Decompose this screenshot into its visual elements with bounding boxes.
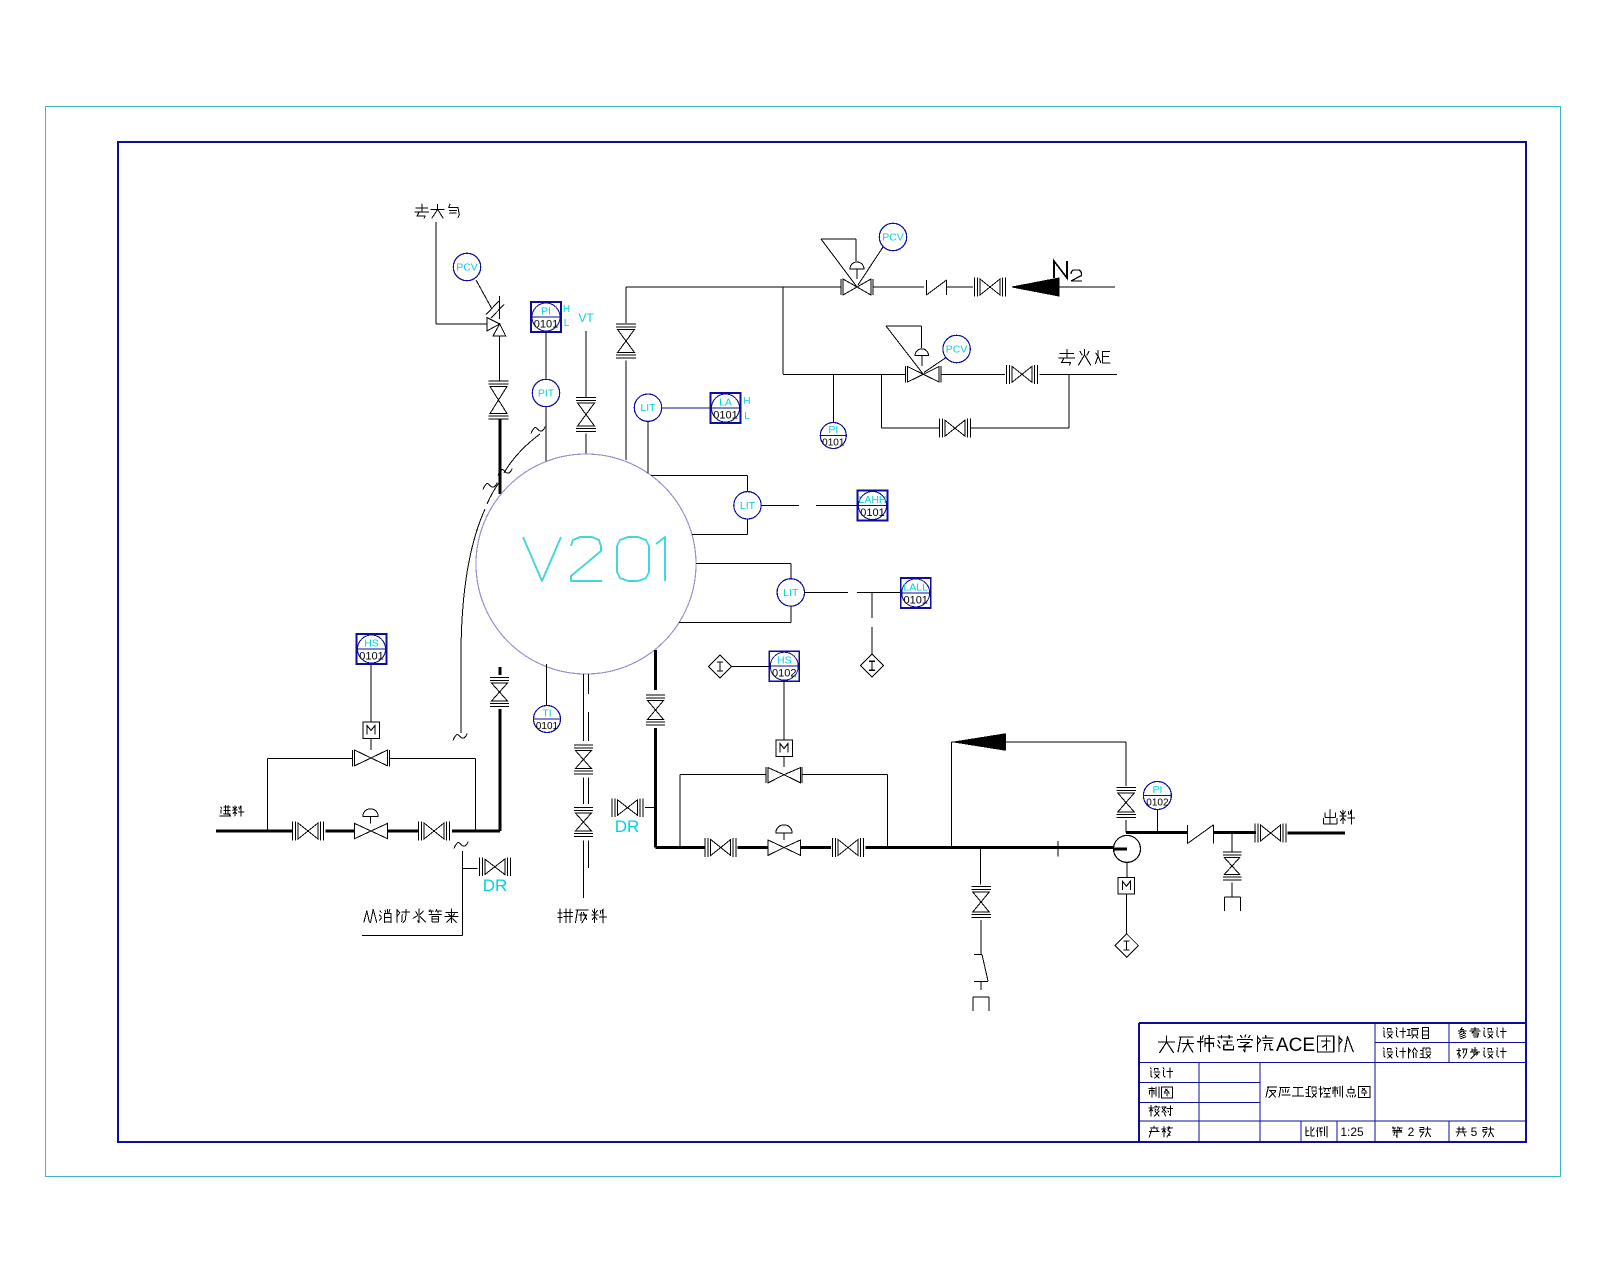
sample valve xyxy=(1224,858,1240,867)
feed bypass loop xyxy=(267,759,269,832)
N2 header line xyxy=(626,286,841,288)
gate valve on recycle xyxy=(1118,793,1135,803)
label 比例 xyxy=(1306,1126,1327,1137)
instrument PCV xyxy=(453,253,480,280)
PI-0101 tap xyxy=(832,374,834,422)
flare header line xyxy=(783,373,905,375)
transfer bypass loop xyxy=(679,775,681,848)
label 校对 xyxy=(1149,1106,1173,1117)
label 设计 xyxy=(1151,1068,1173,1078)
label 第2张 xyxy=(1392,1127,1402,1138)
control valve PCV (N2) xyxy=(840,279,842,295)
DR drain valve (outlet) stub xyxy=(645,807,656,809)
svg-text:PCV: PCV xyxy=(946,344,968,356)
instrument LA 0101 (shared display) xyxy=(711,393,741,423)
instrument TI 0101 xyxy=(534,706,561,733)
instrument PI 0102 xyxy=(1143,782,1171,810)
drain funnel 2 xyxy=(973,996,989,998)
waste valve 1 xyxy=(575,751,591,760)
title 大庆师范学院ACE团队 xyxy=(1159,1035,1274,1053)
text 从消防水管来 (from firewater main) xyxy=(364,909,458,923)
bottom transfer line (thick) xyxy=(656,846,706,849)
capillary curve around vessel left xyxy=(504,434,540,473)
waste line (double) xyxy=(582,674,584,741)
instrument LAHH 0101 (shared display) xyxy=(858,491,888,521)
label 审核 xyxy=(1149,1126,1172,1137)
gate valve on N2 line xyxy=(980,279,990,295)
gate valve at vessel outlet xyxy=(648,701,664,711)
discharge sample branch xyxy=(1231,833,1233,852)
drain funnel xyxy=(1224,896,1240,898)
interlock diamond I (left) xyxy=(709,655,732,678)
svg-text:HS: HS xyxy=(777,655,792,667)
gate valve on VT line xyxy=(578,403,595,415)
instrument PI 0101 xyxy=(820,423,846,449)
instrument LIT xyxy=(634,394,661,421)
instrument PI 0101 (shared display) xyxy=(531,302,561,332)
svg-text:DR: DR xyxy=(615,817,640,836)
control valve PCV (flare) xyxy=(905,366,907,383)
svg-text:L: L xyxy=(564,318,570,329)
svg-text:PI: PI xyxy=(828,424,838,436)
svg-text:H: H xyxy=(743,396,750,407)
svg-text:1:25: 1:25 xyxy=(1340,1125,1364,1139)
vent line xyxy=(435,222,437,324)
text 出料 (product out) xyxy=(1324,810,1355,824)
N2 branch down to vessel xyxy=(625,287,627,323)
feed block valve 2 xyxy=(424,823,434,839)
N2 label xyxy=(1054,261,1067,278)
title block frame xyxy=(1139,1022,1526,1024)
inner navy border frame xyxy=(118,142,1526,1142)
svg-text:PCV: PCV xyxy=(882,232,904,244)
instrument LIT xyxy=(777,579,804,606)
vessel tag V201 xyxy=(523,537,665,581)
svg-text:0101: 0101 xyxy=(534,319,558,331)
svg-text:0101: 0101 xyxy=(359,651,383,663)
discharge block valve xyxy=(1261,825,1271,841)
svg-text:0101: 0101 xyxy=(860,507,884,519)
PI-0102 xyxy=(1156,810,1158,833)
svg-text:PI: PI xyxy=(1152,784,1162,796)
label 设计项目 xyxy=(1384,1028,1429,1039)
instrument PIT xyxy=(532,379,559,406)
outlet line from vessel (thick) xyxy=(654,650,657,690)
pump discharge (thick) xyxy=(1126,831,1187,834)
outer cyan border frame xyxy=(46,107,1561,1177)
transfer block valve 2 xyxy=(838,840,848,856)
feed control valve xyxy=(355,823,372,838)
gate valve on relief line xyxy=(490,387,507,401)
svg-text:DR: DR xyxy=(483,876,508,895)
suction drain branch xyxy=(980,848,982,885)
DR drain valve (feed) xyxy=(485,859,495,875)
relief angle valve xyxy=(487,318,500,332)
svg-text:LA: LA xyxy=(719,397,732,409)
svg-text:H: H xyxy=(563,304,570,315)
label 共5张 xyxy=(1456,1127,1467,1136)
interlock branch xyxy=(871,592,873,618)
svg-text:PI: PI xyxy=(541,306,551,318)
instrument HS 0101 (shared display) xyxy=(357,634,387,664)
DR drain valve (outlet) xyxy=(618,800,628,816)
label 制图 xyxy=(1149,1087,1173,1098)
minimum flow recycle line xyxy=(951,742,953,848)
spare tick on suction line xyxy=(1057,841,1059,857)
svg-text:0102: 0102 xyxy=(1146,798,1169,809)
svg-text:0102: 0102 xyxy=(772,668,796,680)
svg-text:LIT: LIT xyxy=(640,402,656,414)
actuator stem xyxy=(499,296,501,319)
transfer block valve 1 xyxy=(711,840,721,856)
instrument LALL 0101 (shared display) xyxy=(901,578,931,608)
waste valve 2 xyxy=(575,813,591,822)
svg-text:L: L xyxy=(744,411,750,422)
branch down to flare header xyxy=(782,287,784,374)
feed main line (thick) xyxy=(216,830,292,833)
feed block valve 1 xyxy=(298,823,308,839)
svg-text:ACE: ACE xyxy=(1276,1035,1315,1056)
N2 flow arrow (solid) xyxy=(1012,278,1059,296)
relief line to vessel (thick) xyxy=(499,420,502,495)
signal to LA-0101 xyxy=(662,407,711,409)
bypass gate valve (flare) xyxy=(945,420,955,436)
svg-text:PIT: PIT xyxy=(538,388,555,400)
N2 check valve xyxy=(926,280,928,295)
svg-text:0101: 0101 xyxy=(713,410,737,422)
signal to LAHH-0101 xyxy=(761,504,799,506)
label 初步设计 xyxy=(1457,1048,1506,1059)
instrument LIT xyxy=(734,492,761,519)
LIT level transmitter (low) xyxy=(696,562,791,564)
gate valve at vessel inlet xyxy=(492,683,508,692)
pump motor xyxy=(1126,862,1128,877)
text 去大气 (to atmosphere) xyxy=(415,204,460,218)
svg-text:5: 5 xyxy=(1471,1125,1478,1139)
interlock diamond I (pump) xyxy=(1115,934,1138,957)
line break symbol xyxy=(974,954,982,956)
recycle flow arrow xyxy=(954,734,1006,750)
text 去火炬 (to flare) xyxy=(1059,349,1110,365)
svg-text:HS: HS xyxy=(364,638,379,650)
label 参考设计 xyxy=(1458,1027,1506,1039)
PIT impulse line xyxy=(545,332,547,379)
label 设计阶段 xyxy=(1384,1048,1431,1058)
instrument PCV xyxy=(943,335,970,362)
drain valve on suction xyxy=(973,892,990,902)
VT sample line xyxy=(585,331,587,398)
svg-text:VT: VT xyxy=(578,311,594,325)
discharge check valve xyxy=(1187,825,1189,844)
instrument PCV xyxy=(879,223,906,250)
instrument HS 0102 (shared display) xyxy=(769,651,799,681)
firewater connection xyxy=(454,842,468,849)
flare bypass loop xyxy=(881,374,883,428)
transfer control valve xyxy=(768,840,784,855)
motor operated bypass valve xyxy=(352,750,354,767)
TI-0101 xyxy=(546,664,548,706)
svg-text:0101: 0101 xyxy=(536,721,559,732)
svg-text:2: 2 xyxy=(1408,1125,1415,1139)
svg-text:LALL: LALL xyxy=(903,581,928,593)
gate valve on N2 branch xyxy=(618,330,635,342)
signal to LALL-0101 xyxy=(805,591,849,593)
drawing title 反应工段控制点图 xyxy=(1266,1086,1370,1098)
svg-text:LAHH: LAHH xyxy=(858,494,886,506)
interlock diamond I xyxy=(861,654,884,677)
svg-text:0101: 0101 xyxy=(822,438,845,449)
svg-text:LIT: LIT xyxy=(783,587,799,599)
gate valve on flare line xyxy=(1012,366,1022,382)
LIT level transmitter (mid) xyxy=(651,474,748,476)
PCV signal line with slashes xyxy=(476,280,492,309)
svg-text:TI: TI xyxy=(542,708,551,720)
pump P xyxy=(1114,835,1141,862)
vessel V201 xyxy=(476,454,696,674)
svg-text:PCV: PCV xyxy=(456,262,478,274)
svg-text:0101: 0101 xyxy=(903,594,927,606)
svg-text:LIT: LIT xyxy=(740,500,756,512)
feed riser to vessel (thick) xyxy=(499,709,502,831)
motor operated bypass valve 2 xyxy=(765,767,767,783)
text 排废料 (waste discharge) xyxy=(558,909,607,923)
text 进料 (feed) xyxy=(220,806,244,817)
